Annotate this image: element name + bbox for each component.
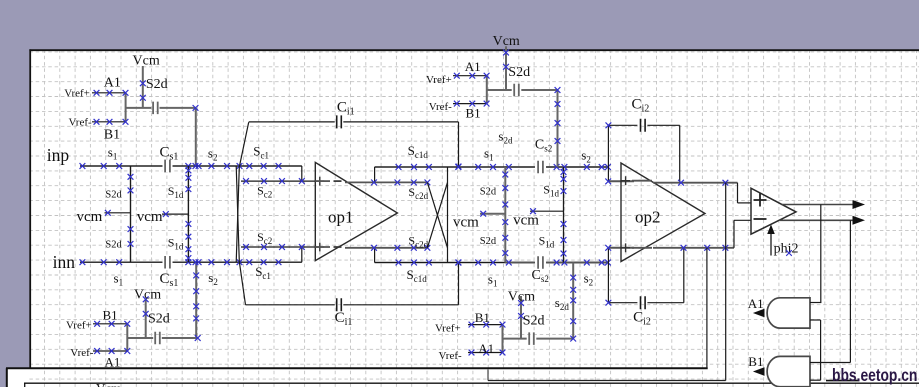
svg-text:A1: A1 (105, 354, 121, 369)
svg-text:Vcm: Vcm (96, 381, 121, 387)
svg-text:S2d: S2d (523, 313, 545, 328)
svg-text:bbs.eetop.cn: bbs.eetop.cn (832, 365, 917, 385)
svg-text:Vref+: Vref+ (435, 322, 461, 334)
svg-text:Vcm: Vcm (133, 54, 160, 69)
svg-text:vcm: vcm (513, 213, 539, 229)
svg-text:vcm: vcm (137, 209, 163, 225)
svg-text:S2d: S2d (480, 186, 497, 197)
svg-text:B1: B1 (103, 308, 118, 323)
svg-text:inn: inn (53, 252, 76, 272)
svg-text:vcm: vcm (77, 209, 103, 225)
svg-text:Vcm: Vcm (508, 290, 535, 305)
svg-text:A1: A1 (465, 59, 481, 74)
svg-text:S2d: S2d (105, 189, 122, 200)
svg-text:vcm: vcm (453, 215, 479, 231)
svg-text:A1: A1 (478, 341, 494, 356)
svg-text:op2: op2 (635, 208, 661, 227)
svg-text:B1: B1 (475, 310, 490, 325)
svg-text:phi2: phi2 (774, 242, 799, 257)
svg-text:S2d: S2d (105, 240, 122, 251)
svg-text:B1: B1 (748, 354, 763, 369)
svg-text:Vref-: Vref- (70, 347, 93, 359)
svg-text:Vref-: Vref- (429, 101, 452, 113)
svg-text:B1: B1 (466, 106, 481, 121)
svg-text:Vref+: Vref+ (64, 88, 90, 100)
svg-text:inp: inp (47, 145, 70, 165)
svg-text:B1: B1 (104, 128, 120, 143)
svg-text:S2d: S2d (146, 77, 168, 92)
svg-text:A1: A1 (104, 76, 121, 91)
svg-text:S2d: S2d (148, 312, 170, 327)
svg-text:Vref+: Vref+ (66, 320, 92, 332)
svg-text:Vcm: Vcm (493, 34, 520, 49)
svg-text:S2d: S2d (508, 65, 530, 80)
svg-text:Vcm: Vcm (134, 288, 161, 303)
svg-text:S2d: S2d (480, 236, 497, 247)
svg-text:Vref+: Vref+ (426, 74, 452, 86)
svg-text:Vref-: Vref- (439, 350, 462, 362)
svg-text:A1: A1 (748, 296, 764, 311)
svg-text:op1: op1 (328, 208, 354, 227)
svg-text:Vref-: Vref- (69, 116, 92, 128)
